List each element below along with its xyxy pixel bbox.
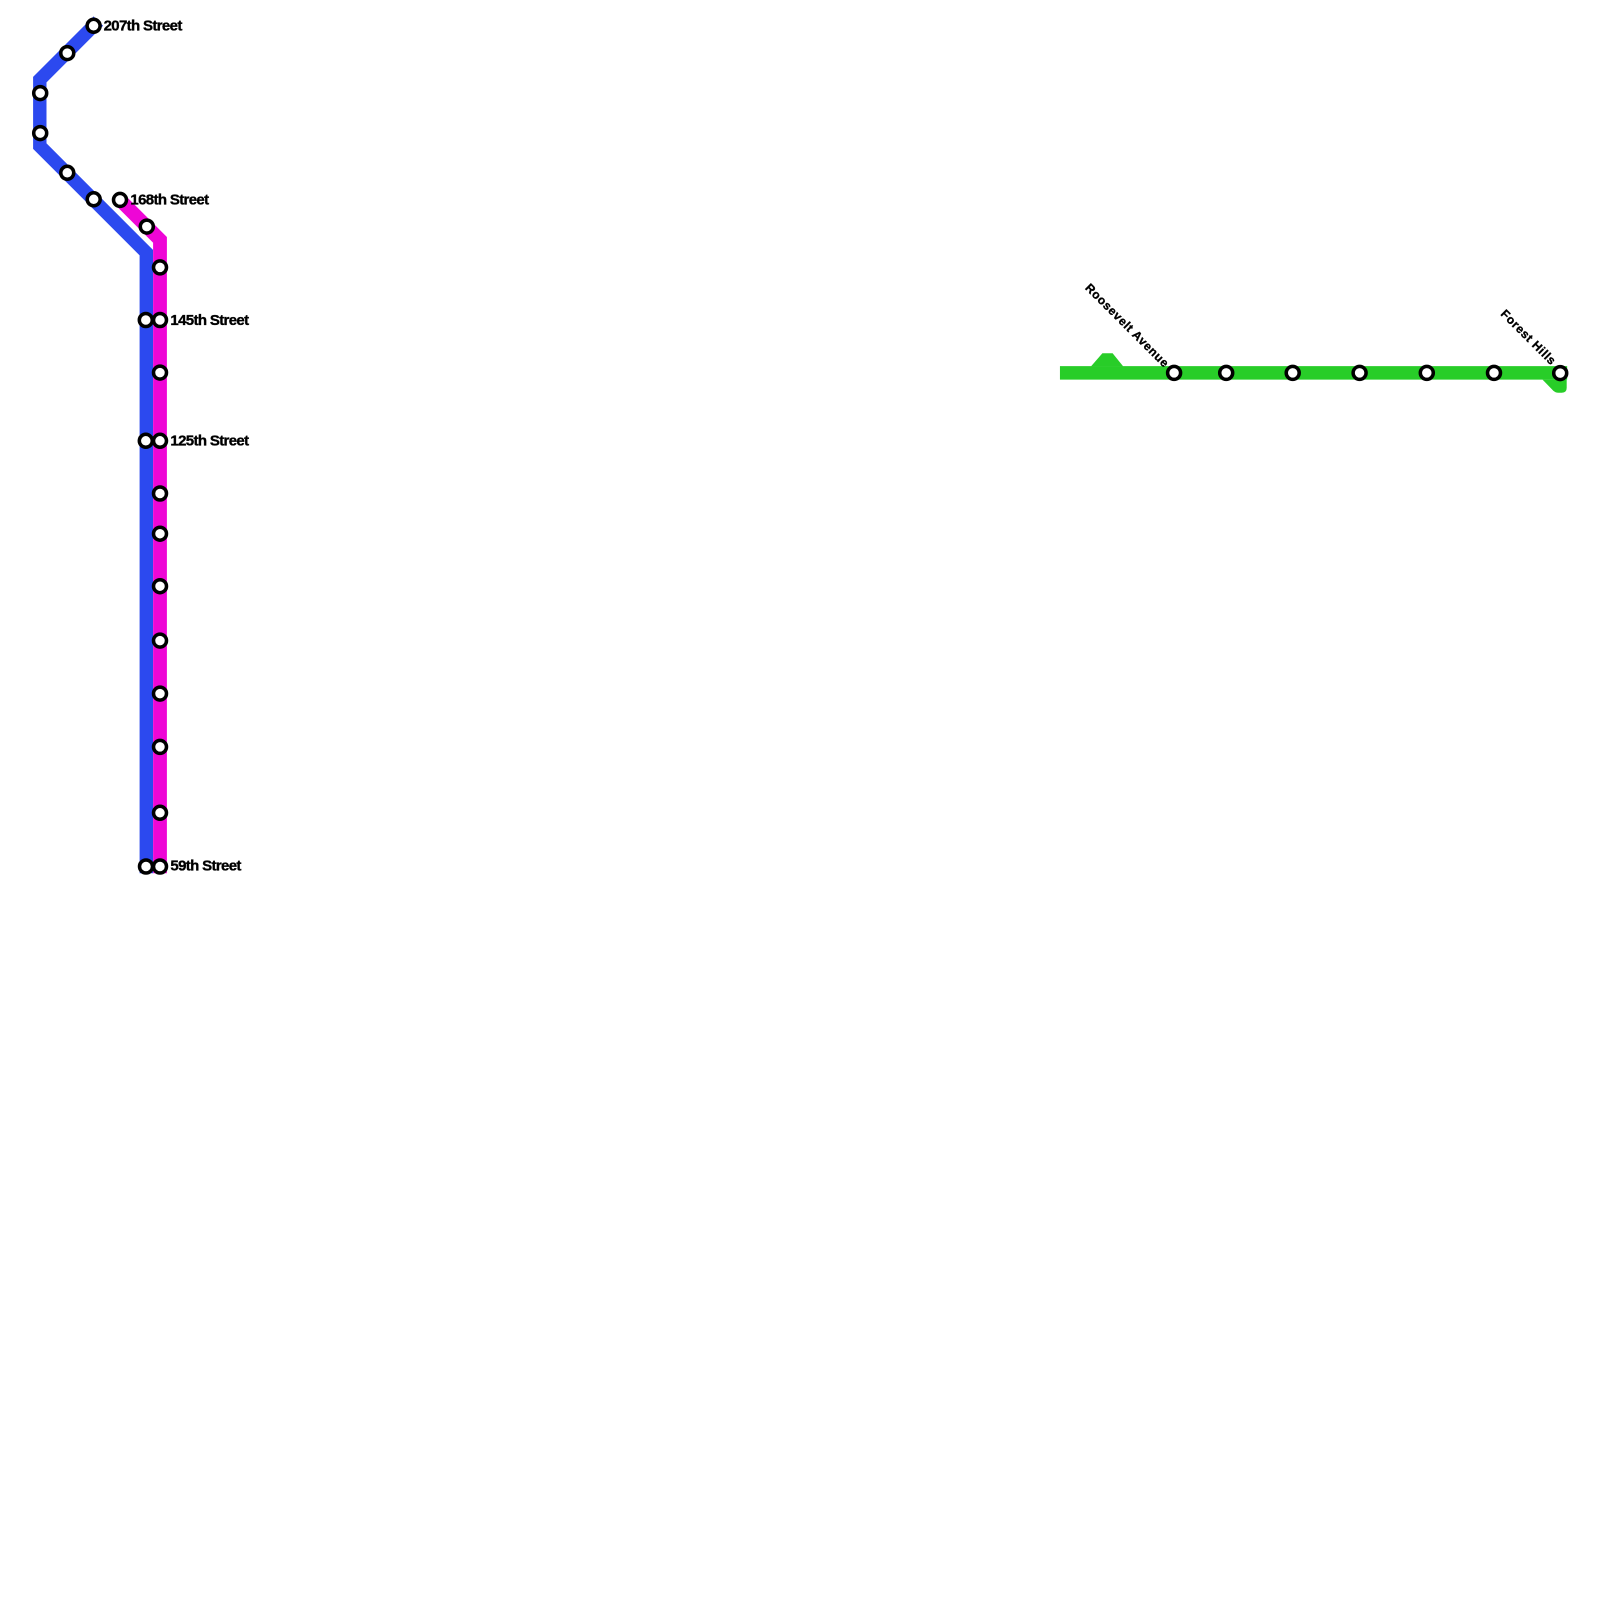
svg-text:207th Street: 207th Street: [104, 17, 183, 34]
node magenta 10: [154, 634, 167, 647]
wire blue line A (207th St - 59th St): [40, 26, 147, 867]
node magenta 12: [154, 740, 167, 753]
node magenta 3: [154, 261, 167, 274]
node blue 3: [34, 87, 47, 100]
svg-text:168th Street: 168th Street: [130, 192, 209, 209]
node blue 168th: [87, 193, 100, 206]
wire green line main (Queens Blvd): [1067, 366, 1561, 380]
node green 3: [1286, 366, 1299, 379]
node green 5: [1420, 366, 1433, 379]
green line right tail: [1543, 380, 1567, 393]
node magenta 59th: [154, 860, 167, 873]
node magenta 168th Street: [114, 193, 127, 206]
node blue 4: [34, 127, 47, 140]
node blue 59th: [140, 860, 153, 873]
node blue 145th: [139, 314, 152, 327]
wire magenta line D (168th St - 59th St): [120, 200, 160, 873]
node magenta 5: [154, 366, 167, 379]
node green Forest Hills: [1554, 367, 1567, 380]
node green 6: [1488, 366, 1501, 379]
node blue 2: [61, 47, 74, 60]
node green 2: [1220, 366, 1233, 379]
svg-text:125th Street: 125th Street: [170, 433, 249, 450]
node blue 5: [61, 166, 74, 179]
node blue 125th: [139, 434, 152, 447]
node magenta 9: [154, 580, 167, 593]
svg-text:145th Street: 145th Street: [170, 312, 249, 329]
node magenta 8: [154, 527, 167, 540]
node green Roosevelt Avenue: [1168, 366, 1181, 379]
svg-text:59th Street: 59th Street: [170, 857, 241, 874]
node magenta 7: [154, 487, 167, 500]
node magenta 2: [140, 220, 153, 233]
node magenta 145th: [154, 314, 167, 327]
node magenta 13: [154, 806, 167, 819]
node 207th Street: [87, 19, 100, 32]
node magenta 11: [154, 687, 167, 700]
node green 4: [1353, 366, 1366, 379]
green line bump: [1091, 353, 1123, 366]
node magenta 125th: [154, 434, 167, 447]
